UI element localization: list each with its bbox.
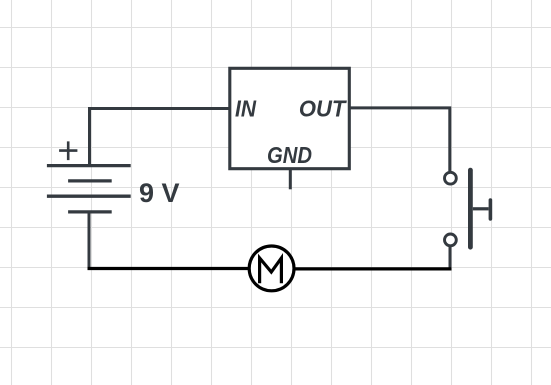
pushbutton S1 terminal circle top bbox=[445, 172, 457, 184]
wire switch bottom terminal down bbox=[449, 246, 452, 269]
GND pin stub bbox=[289, 170, 292, 189]
svg-text:OUT: OUT bbox=[299, 96, 347, 122]
wire OUT to switch (right then down) bbox=[349, 108, 450, 171]
pushbutton S1 plunger stem bbox=[473, 207, 489, 210]
pushbutton S1 terminal circle bottom bbox=[445, 234, 457, 246]
wire battery+ to IN (up then right) bbox=[90, 109, 230, 165]
svg-text:IN: IN bbox=[235, 96, 256, 122]
motor M1 letter M strokes bbox=[260, 258, 282, 283]
wire bottom rail right (motor to switch) bbox=[294, 267, 452, 270]
pushbutton S1 actuator bar bbox=[468, 170, 473, 247]
wire bottom rail left (battery to motor) bbox=[88, 267, 250, 270]
regulator U1 box bbox=[230, 68, 349, 168]
pushbutton S1 plunger cap bbox=[489, 200, 493, 219]
motor M1 circle bbox=[249, 246, 294, 291]
battery BT1 plates and + bbox=[47, 141, 131, 212]
svg-text:GND: GND bbox=[267, 142, 312, 168]
wire battery- down to bottom rail bbox=[88, 213, 91, 269]
svg-text:9 V: 9 V bbox=[139, 178, 180, 208]
